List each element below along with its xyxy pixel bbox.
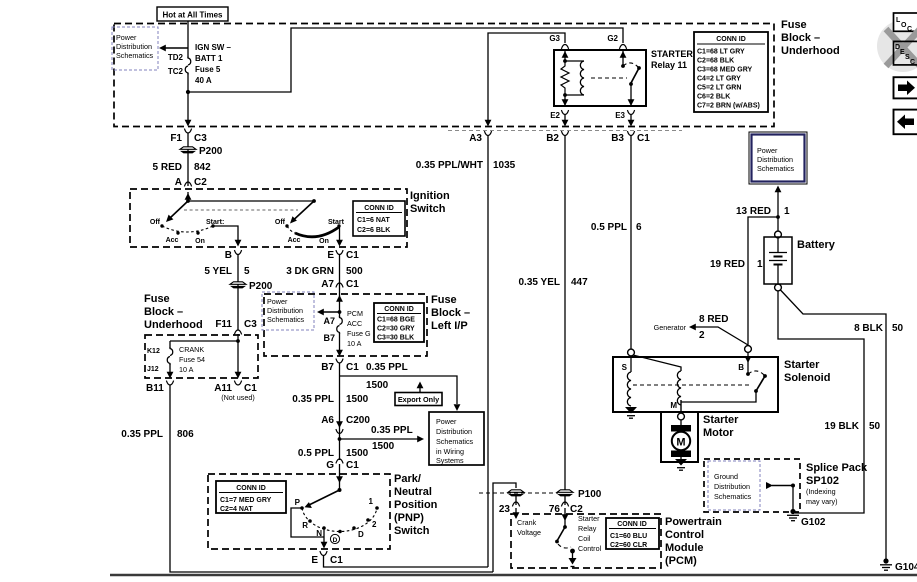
svg-text:Hot at All Times: Hot at All Times [162, 11, 223, 20]
node G3 [549, 34, 568, 49]
svg-text:P200: P200 [249, 281, 273, 292]
svg-text:50: 50 [869, 421, 881, 432]
svg-text:500: 500 [346, 266, 363, 277]
junction dot relay coil bottom [563, 93, 567, 97]
solenoid switch blade [748, 371, 767, 393]
svg-text:Block –: Block – [781, 32, 820, 44]
wire B11 exit arrow [167, 364, 174, 379]
wire ignition left start to B [213, 226, 241, 247]
arrow to power distribution schematics [159, 45, 188, 52]
wire 19 BLK to splice pack [778, 291, 864, 513]
svg-text:Off: Off [150, 219, 161, 226]
svg-text:Schematics: Schematics [267, 315, 305, 324]
svg-text:C1: C1 [346, 362, 359, 373]
pnp blade [305, 490, 340, 508]
svg-text:C7=2 BRN (w/ABS): C7=2 BRN (w/ABS) [697, 103, 760, 110]
svg-text:0.35 PPL/WHT: 0.35 PPL/WHT [416, 160, 483, 171]
watermark halo [877, 20, 917, 72]
svg-text:P: P [295, 498, 301, 507]
svg-text:2: 2 [372, 520, 377, 529]
svg-text:A7: A7 [323, 316, 335, 326]
starter motor symbol [671, 420, 691, 459]
label STARTER Relay 11 [651, 49, 693, 70]
svg-text:(PNP): (PNP) [394, 512, 424, 524]
wire B3 down to solenoid S [630, 136, 632, 350]
label starter relay coil control [578, 514, 602, 553]
pnp switch box [208, 474, 390, 549]
svg-text:0.35 YEL: 0.35 YEL [518, 277, 560, 288]
svg-text:Left I/P: Left I/P [431, 320, 468, 332]
svg-text:1500: 1500 [346, 448, 369, 459]
label Park Neutral Position PNP Switch [394, 473, 438, 537]
svg-text:1500: 1500 [366, 380, 389, 391]
power distribution schematics box (top left) [112, 27, 158, 70]
svg-text:C1: C1 [346, 250, 359, 261]
svg-text:C1=7 MED GRY: C1=7 MED GRY [220, 497, 272, 504]
svg-text:Distribution: Distribution [436, 427, 472, 436]
wire B down [237, 255, 239, 331]
svg-text:23: 23 [499, 504, 511, 515]
svg-text:C3=30 BLK: C3=30 BLK [377, 335, 414, 342]
ui button desc [894, 41, 917, 66]
svg-text:E3: E3 [615, 111, 625, 120]
svg-text:Park/: Park/ [394, 473, 421, 485]
svg-text:Control: Control [665, 529, 704, 541]
svg-text:E: E [327, 250, 334, 261]
svg-text:Switch: Switch [394, 525, 430, 537]
fuse block left ip box [264, 294, 427, 356]
svg-text:IGN SW –: IGN SW – [195, 43, 232, 52]
starter solenoid box [613, 357, 778, 412]
wire 76 entry arrow [562, 508, 569, 527]
starter relay 11 box [554, 50, 646, 106]
wire 806 down and right [170, 385, 493, 572]
junction dot crank tee [236, 339, 240, 343]
connector C1 gray line under fuse block [448, 130, 682, 132]
svg-text:J12: J12 [147, 366, 159, 373]
svg-text:A7: A7 [321, 279, 334, 290]
connector P100 lens 76 [557, 489, 602, 500]
node A C2 [175, 177, 207, 188]
svg-text:B11: B11 [146, 383, 164, 394]
pnp position dots and labels [295, 497, 379, 539]
svg-text:CONN ID: CONN ID [364, 205, 394, 212]
wire label 0.35 PPL 806 [121, 429, 194, 440]
svg-text:Schematics: Schematics [757, 164, 795, 173]
conn id ignition switch [353, 201, 405, 236]
svg-text:0.35 PPL: 0.35 PPL [121, 429, 163, 440]
svg-text:19 BLK: 19 BLK [825, 421, 860, 432]
svg-text:E2: E2 [550, 111, 560, 120]
wire 19 RED branch [748, 217, 778, 345]
wire label 8 BLK 50 [854, 323, 903, 334]
svg-text:B: B [225, 250, 232, 261]
wire label 3 DK GRN 500 [286, 266, 363, 277]
svg-text:Battery: Battery [797, 239, 836, 251]
node B [225, 250, 242, 261]
junction dot A6 branch [338, 437, 342, 441]
coil in relay [565, 61, 584, 95]
node 76 C2 [549, 496, 583, 515]
node G2 [607, 34, 626, 49]
pnp positions arc [302, 508, 377, 532]
svg-text:Block –: Block – [144, 306, 183, 318]
svg-text:M: M [676, 437, 685, 449]
power distribution schematics box (mid) [262, 292, 314, 330]
label Fuse Block Underhood (top right) [781, 19, 840, 57]
svg-text:Position: Position [394, 499, 438, 511]
wire B2 down to P100 [564, 136, 566, 491]
svg-text:B7: B7 [323, 333, 335, 343]
svg-text:Solenoid: Solenoid [784, 372, 830, 384]
svg-text:D: D [358, 530, 364, 539]
connector P100 dashed line [479, 492, 558, 494]
svg-text:Distribution: Distribution [714, 482, 750, 491]
solenoid S terminal [622, 349, 635, 372]
svg-text:5 YEL: 5 YEL [204, 266, 232, 277]
svg-text:1: 1 [757, 259, 763, 270]
svg-text:(Indexing: (Indexing [806, 487, 836, 496]
wire A7 entry arrow [336, 294, 343, 312]
battery B- terminal [775, 284, 782, 291]
svg-text:Crank: Crank [517, 518, 537, 527]
node E3 [615, 110, 634, 126]
relay switch G2 entry arrow [620, 50, 627, 68]
ignition left positions [150, 219, 224, 245]
pcm box [511, 514, 661, 568]
svg-text:0.35 PPL: 0.35 PPL [366, 362, 408, 373]
wire F11 entry [237, 334, 239, 341]
wire A11 exit arrow [235, 341, 242, 379]
svg-text:C2=30 GRY: C2=30 GRY [377, 326, 415, 333]
splice pack arrow [766, 482, 795, 509]
svg-text:Power: Power [267, 297, 288, 306]
svg-text:On: On [195, 238, 205, 245]
arrow to power distribution schematics mid [317, 309, 340, 316]
wire relay coil to E2 with arrow [562, 95, 569, 106]
svg-text:Power: Power [116, 33, 137, 42]
fuse F5 IGN SW BATT 1 [168, 43, 232, 85]
ui button next [894, 77, 917, 98]
svg-text:Schematics: Schematics [714, 492, 752, 501]
svg-text:1500: 1500 [346, 394, 369, 405]
svg-text:(Not used): (Not used) [221, 393, 255, 402]
wire hot feed from Hot at All Times down [187, 21, 189, 58]
wire relay switch to E3 with arrow [628, 84, 635, 106]
svg-text:CONN ID: CONN ID [384, 306, 414, 313]
svg-text:Relay: Relay [578, 524, 597, 533]
solenoid pull-in coil branch [633, 355, 681, 405]
svg-text:50: 50 [892, 323, 904, 334]
svg-text:Module: Module [665, 542, 704, 554]
svg-text:TD2: TD2 [168, 53, 184, 62]
wire label 5 RED 842 [153, 162, 212, 173]
svg-text:5 RED: 5 RED [153, 162, 182, 173]
wire 8 BLK to G104 [781, 290, 887, 559]
node B7 C1 [321, 359, 408, 373]
wire pull-in coil to M node [670, 400, 681, 413]
svg-text:C2=4 NAT: C2=4 NAT [220, 506, 253, 513]
connector P200 (second) [230, 281, 273, 292]
node 23 [499, 496, 520, 515]
svg-text:13 RED: 13 RED [736, 206, 771, 217]
ignition switch box [130, 189, 407, 247]
wire battery to power distribution arrow [775, 186, 782, 232]
svg-text:C5=2 LT GRN: C5=2 LT GRN [697, 85, 741, 92]
svg-text:Distribution: Distribution [757, 155, 793, 164]
label Splice Pack SP102 [806, 462, 868, 506]
battery [764, 237, 792, 284]
ignition right blade [290, 201, 314, 224]
wire branch 0.35 PPL 1500 right arrow [340, 425, 425, 452]
svg-text:Schematics: Schematics [436, 437, 474, 446]
svg-text:S: S [622, 363, 628, 372]
motor M terminal [678, 413, 685, 420]
solenoid B entry arrow [738, 353, 751, 376]
junction dot 13 RED branch [776, 215, 780, 219]
svg-text:C1=68 BGE: C1=68 BGE [377, 317, 415, 324]
conn id pcm [606, 518, 659, 549]
junction dot relay coil top [563, 59, 567, 63]
svg-text:C6=2 BLK: C6=2 BLK [697, 94, 730, 101]
svg-text:3 DK GRN: 3 DK GRN [286, 266, 334, 277]
solenoid B terminal [745, 346, 752, 353]
svg-text:Ground: Ground [714, 472, 738, 481]
svg-text:8 RED: 8 RED [699, 314, 728, 325]
svg-text:Fuse 54: Fuse 54 [179, 355, 205, 364]
svg-text:1500: 1500 [372, 441, 395, 452]
junction dot ignition right pivot [312, 199, 316, 203]
wire label 13 RED 1 [736, 206, 790, 217]
svg-text:2: 2 [699, 330, 705, 341]
svg-text:Block –: Block – [431, 307, 470, 319]
svg-text:M: M [670, 401, 677, 410]
svg-text:(PCM): (PCM) [665, 555, 697, 567]
wire B7 down [339, 363, 341, 460]
node E C1 [327, 250, 359, 261]
svg-text:Switch: Switch [410, 203, 446, 215]
svg-text:806: 806 [177, 429, 194, 440]
svg-text:Fuse: Fuse [781, 19, 807, 31]
svg-text:Acc: Acc [288, 237, 301, 244]
svg-text:C1=68 LT GRY: C1=68 LT GRY [697, 49, 745, 56]
svg-text:5: 5 [244, 266, 250, 277]
svg-text:ACC: ACC [347, 319, 362, 328]
fuse block underhood box (top) [114, 24, 774, 127]
svg-text:Start: Start [328, 219, 345, 226]
junction dot A7 branch [338, 310, 342, 314]
svg-text:1035: 1035 [493, 160, 516, 171]
relay switch blade [623, 63, 641, 86]
svg-text:BATT 1: BATT 1 [195, 54, 223, 63]
svg-text:CRANK: CRANK [179, 345, 204, 354]
wire label 19 RED 1 [710, 259, 763, 270]
svg-text:C2=68 BLK: C2=68 BLK [697, 58, 734, 65]
wire solenoid switch to M [681, 391, 756, 402]
svg-text:Schematics: Schematics [116, 51, 154, 60]
svg-text:G104: G104 [895, 562, 917, 573]
resistor in relay [561, 61, 569, 95]
svg-text:A3: A3 [469, 133, 482, 144]
export only box with arrow [395, 382, 442, 406]
svg-text:may vary): may vary) [806, 497, 838, 506]
svg-text:C2: C2 [194, 177, 207, 188]
svg-text:Generator: Generator [654, 323, 687, 332]
bottom frame line [110, 574, 917, 576]
label Powertrain Control Module PCM [665, 516, 722, 567]
battery B+ terminal [775, 231, 782, 238]
wire 23 crank voltage entry [513, 508, 541, 537]
svg-text:Ignition: Ignition [410, 190, 450, 202]
svg-text:Systems: Systems [436, 456, 464, 465]
relay coil branch G3 entry arrow [562, 50, 569, 61]
svg-text:G: G [326, 460, 334, 471]
svg-text:P200: P200 [199, 146, 223, 157]
svg-text:R: R [302, 521, 308, 530]
svg-text:Export Only: Export Only [398, 395, 440, 404]
wire label 0.35 PPL 1500 [292, 394, 368, 405]
node A6 C200 [321, 415, 370, 434]
svg-text:842: 842 [194, 162, 211, 173]
svg-text:P100: P100 [578, 489, 602, 500]
svg-text:TC2: TC2 [168, 67, 184, 76]
label Hot at All Times [157, 7, 228, 21]
node E2 [550, 110, 568, 126]
node A7 C1 [321, 279, 359, 290]
label Starter Solenoid [784, 359, 830, 384]
wire branch 1500 to power dist wiring systems [340, 376, 461, 411]
svg-text:F1: F1 [170, 133, 182, 144]
svg-text:Fuse G: Fuse G [347, 329, 371, 338]
watermark X [886, 29, 917, 66]
wire coil net A3 riser to relay G3 [488, 33, 565, 121]
svg-text:STARTER: STARTER [651, 49, 693, 59]
wire A3 1035 down [487, 136, 489, 568]
wire E down joining 1035 run [324, 556, 489, 568]
wire ignition feed bus [188, 200, 314, 202]
connector P200 (left) [180, 146, 223, 157]
wire label 0.5 PPL 1500 [298, 448, 369, 459]
label Starter Motor [703, 414, 739, 439]
svg-text:447: 447 [571, 277, 588, 288]
conn id starter relay [694, 32, 768, 112]
svg-text:Neutral: Neutral [394, 486, 432, 498]
svg-text:Powertrain: Powertrain [665, 516, 722, 528]
node F1 C3 [170, 129, 207, 144]
wire riser to pin 23 [493, 483, 516, 572]
ignition left blade [166, 201, 188, 222]
svg-text:C1=60 BLU: C1=60 BLU [610, 533, 647, 540]
svg-text:19 RED: 19 RED [710, 259, 745, 270]
svg-text:C1: C1 [346, 279, 359, 290]
pcm driver switch starter relay coil control [555, 525, 576, 566]
svg-text:Relay 11: Relay 11 [651, 60, 687, 70]
svg-text:40 A: 40 A [195, 76, 212, 85]
svg-text:C1: C1 [637, 133, 650, 144]
svg-text:CONN ID: CONN ID [716, 36, 746, 43]
node B11 [146, 381, 174, 394]
wire F1 exit arrow [185, 92, 192, 127]
svg-text:On: On [319, 238, 329, 245]
relay linkage dashed [591, 77, 627, 79]
svg-text:Power: Power [436, 417, 457, 426]
fuse G PCM ACC [323, 309, 370, 348]
svg-text:C4=2 LT GRY: C4=2 LT GRY [697, 76, 741, 83]
svg-text:in Wiring: in Wiring [436, 447, 464, 456]
svg-text:Starter: Starter [578, 514, 600, 523]
svg-text:Voltage: Voltage [517, 528, 541, 537]
svg-text:C: C [910, 59, 915, 66]
ignition right positions [275, 219, 345, 245]
svg-text:Splice Pack: Splice Pack [806, 462, 868, 474]
svg-text:Fuse 5: Fuse 5 [195, 65, 221, 74]
node G C1 [326, 459, 359, 471]
svg-text:Distribution: Distribution [116, 42, 152, 51]
ui button loc [894, 13, 917, 33]
svg-text:10 A: 10 A [179, 365, 194, 374]
wire G entry arrow [336, 464, 343, 490]
wire label 19 BLK 50 [825, 421, 881, 432]
conn id pnp [216, 481, 286, 513]
label Fuse Block Underhood (left) [144, 293, 203, 331]
svg-text:C2=60 CLR: C2=60 CLR [610, 542, 647, 549]
svg-text:Start:: Start: [206, 219, 224, 226]
wire 8 RED to generator [654, 314, 748, 345]
wire E down to A7 [339, 255, 341, 295]
svg-text:C3: C3 [194, 133, 207, 144]
ignition linkage dashed [184, 209, 298, 211]
svg-text:B: B [738, 363, 744, 372]
svg-text:Control: Control [578, 544, 602, 553]
svg-text:0.35 PPL: 0.35 PPL [371, 425, 413, 436]
svg-text:6: 6 [636, 222, 642, 233]
ground solenoid case [625, 407, 637, 418]
ui button prev [894, 110, 917, 135]
svg-text:SP102: SP102 [806, 475, 839, 487]
svg-text:Underhood: Underhood [781, 45, 840, 57]
junction dot fuse output [186, 90, 190, 94]
svg-text:B7: B7 [321, 362, 334, 373]
svg-text:C1: C1 [346, 460, 359, 471]
solenoid hold-in coil [627, 356, 631, 406]
wire pnp N to E exit arrow [321, 528, 328, 549]
ignition feed entry arrow [185, 192, 192, 201]
svg-text:Starter: Starter [784, 359, 820, 371]
svg-text:C2=6 BLK: C2=6 BLK [357, 227, 390, 234]
svg-text:A: A [175, 177, 182, 188]
wire to P200 [187, 133, 189, 186]
svg-text:0.5 PPL: 0.5 PPL [298, 448, 334, 459]
svg-text:0.35 PPL: 0.35 PPL [292, 394, 334, 405]
svg-text:Motor: Motor [703, 427, 734, 439]
wire label 0.35 PPL/WHT 1035 [416, 160, 516, 171]
svg-text:1: 1 [784, 206, 790, 217]
fuse 54 CRANK [147, 341, 205, 374]
svg-text:CONN ID: CONN ID [236, 485, 266, 492]
starter motor box [661, 412, 698, 462]
junction dot pnp pivot [338, 488, 342, 492]
ground G102 [787, 509, 826, 528]
circled D indicator [330, 534, 339, 544]
svg-text:G2: G2 [607, 34, 618, 43]
svg-text:B2: B2 [546, 133, 559, 144]
ground distribution schematics box [704, 459, 800, 512]
svg-text:8 BLK: 8 BLK [854, 323, 884, 334]
svg-text:0.5 PPL: 0.5 PPL [591, 222, 627, 233]
node A3 [469, 120, 491, 144]
crank fuse box [145, 335, 258, 378]
node A11 C1 not used [214, 381, 257, 402]
